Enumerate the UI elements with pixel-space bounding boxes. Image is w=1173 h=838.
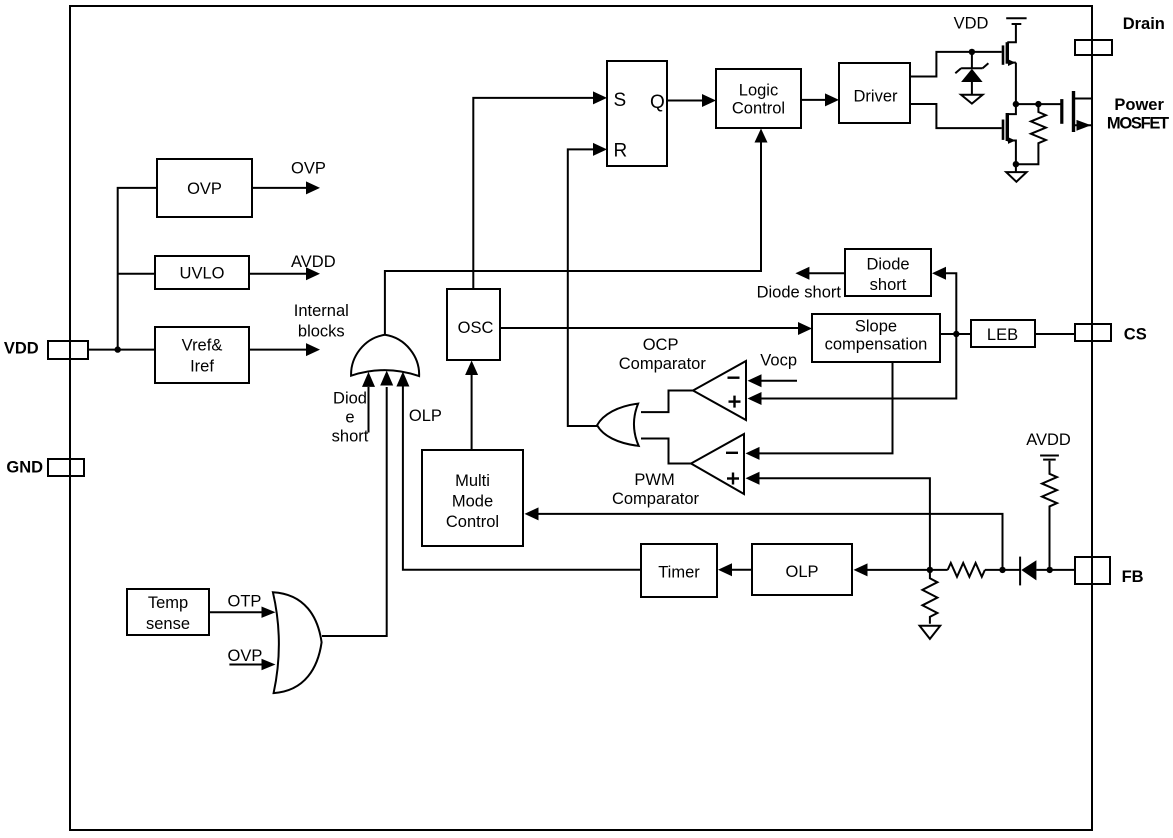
block Driver [839, 63, 910, 123]
wire Logic Control to Driver [801, 99, 825, 101]
pin GND [48, 459, 84, 476]
svg-text:Driver: Driver [854, 88, 899, 106]
flip-flop U1 SR latch [607, 61, 667, 166]
wire LEB to Slope compensation [940, 333, 971, 335]
block Vref&Iref [155, 327, 249, 383]
svg-text:OVP: OVP [228, 647, 263, 665]
wire VDD branch vertical [118, 188, 157, 350]
wire Vref output [249, 349, 308, 351]
node mid junction [1013, 101, 1019, 107]
node FB-MMC junction [999, 567, 1005, 573]
ground below M2 [1006, 172, 1026, 182]
wire CS net to OCP plus input [760, 334, 956, 399]
node AVDD junction [1047, 567, 1053, 573]
svg-text:Drain: Drain [1123, 15, 1165, 33]
svg-text:GND: GND [6, 459, 43, 477]
wire diode to FB pin [1036, 569, 1075, 571]
svg-text:short: short [870, 276, 907, 294]
pin VDD [48, 341, 88, 359]
wire OR2 output to OR3 middle input [322, 387, 387, 636]
svg-text:OVP: OVP [291, 160, 326, 178]
svg-text:VDD: VDD [954, 14, 989, 32]
svg-text:Internal: Internal [294, 302, 349, 320]
svg-text:Comparator: Comparator [619, 355, 707, 373]
resistor R4 vertical to ground [922, 570, 937, 624]
svg-text:Temp: Temp [148, 594, 188, 612]
block Temp sense [127, 589, 209, 635]
svg-text:Mode: Mode [452, 493, 493, 511]
svg-text:Comparator: Comparator [612, 490, 700, 508]
svg-text:OVP: OVP [187, 180, 222, 198]
block OSC [447, 289, 500, 360]
wire R3 to diode [985, 569, 1020, 571]
svg-text:OTP: OTP [228, 593, 262, 611]
wire Driver upper output to M1 gate [910, 52, 1002, 77]
svg-text:Diod: Diod [333, 390, 367, 408]
op-amp OCP comparator [693, 361, 746, 420]
svg-text:sense: sense [146, 615, 190, 633]
wire OSC top to S input [473, 98, 593, 289]
wire Vocp to OCP minus input [761, 380, 797, 382]
wire Driver lower output to M2 gate [910, 104, 1002, 128]
resistor R1 [1016, 104, 1046, 164]
diode D2 FB [1020, 557, 1036, 586]
wire OSC to Slope compensation [500, 327, 798, 329]
wire OR2m output to R input [568, 149, 597, 426]
node M1 gate junction [969, 49, 975, 55]
wire FB line to OLP [867, 569, 948, 571]
svg-text:PWM: PWM [634, 471, 674, 489]
block OVP [157, 159, 252, 217]
pin FB [1075, 557, 1110, 584]
OR gate OR2 bottom [273, 592, 322, 693]
wire Diode short stub OR3 left input [368, 387, 370, 433]
transistor Power MOSFET [1062, 91, 1092, 132]
wire gate net to power MOSFET [1016, 103, 1061, 105]
wire MMC top to OSC [471, 374, 473, 450]
svg-text:OLP: OLP [409, 407, 442, 425]
block UVLO [155, 256, 249, 289]
wire OVP to OR2 [229, 664, 262, 666]
pin CS [1075, 324, 1111, 341]
node bottom junction [1013, 161, 1019, 167]
block Logic Control [716, 69, 801, 128]
wire FB net to PWM plus input [759, 478, 930, 570]
svg-text:Diode short: Diode short [757, 284, 842, 302]
block Timer [641, 544, 717, 597]
wire M1 source down [1015, 63, 1017, 105]
block Diode short [845, 249, 931, 296]
svg-text:Multi: Multi [455, 472, 490, 490]
node VDD junction [115, 346, 121, 352]
svg-text:blocks: blocks [298, 322, 345, 340]
wire stub to ground [1015, 164, 1017, 172]
wire Slope bottom to PWM minus input [759, 362, 893, 453]
svg-text:OCP: OCP [643, 336, 679, 354]
svg-text:Vocp: Vocp [760, 351, 797, 369]
svg-text:compensation: compensation [825, 336, 928, 354]
svg-text:Iref: Iref [190, 358, 214, 376]
svg-text:S: S [614, 90, 627, 111]
svg-text:Logic: Logic [739, 82, 778, 100]
svg-text:UVLO: UVLO [180, 265, 225, 283]
svg-text:Vref&: Vref& [182, 337, 223, 355]
wire OLP to Timer [731, 569, 752, 571]
svg-text:OLP: OLP [785, 563, 818, 581]
svg-text:AVDD: AVDD [291, 253, 336, 271]
svg-text:OSC: OSC [458, 319, 494, 337]
node CS net junction [953, 331, 959, 337]
wire UVLO output [249, 273, 308, 275]
block Multi Mode Control [422, 450, 523, 546]
node R4 junction [927, 567, 933, 573]
svg-text:Timer: Timer [658, 564, 700, 582]
wire OCP output to OR2m [641, 391, 693, 413]
svg-text:VDD: VDD [4, 339, 39, 357]
VDD power rail top [1006, 18, 1026, 24]
ground below zener [961, 95, 983, 104]
svg-text:LEB: LEB [987, 326, 1018, 344]
wire PWM output to OR2m [641, 439, 691, 464]
AVDD power rail [1040, 456, 1059, 460]
svg-text:Control: Control [732, 100, 785, 118]
resistor R3 horizontal FB [948, 563, 985, 577]
svg-text:Control: Control [446, 513, 499, 531]
svg-text:short: short [332, 428, 369, 446]
svg-text:MOSFET: MOSFET [1107, 115, 1169, 133]
wire zener stub upper [971, 52, 973, 69]
wire Temp sense to OR2 [209, 611, 262, 613]
svg-text:e: e [345, 409, 354, 427]
block Slope compensation [812, 314, 940, 362]
wire OR3 output to Logic Control [385, 142, 761, 335]
svg-text:Diode: Diode [866, 256, 909, 274]
svg-text:FB: FB [1122, 568, 1144, 586]
op-amp PWM comparator [691, 434, 744, 494]
svg-text:R: R [614, 141, 628, 162]
pin Drain [1075, 40, 1112, 55]
svg-text:AVDD: AVDD [1026, 431, 1071, 449]
zener diode D1 [955, 63, 988, 95]
block LEB [971, 320, 1035, 347]
wire Timer to OR3 OLP input [403, 386, 641, 570]
wire OVP output [252, 187, 308, 189]
block OLP [752, 544, 852, 595]
svg-text:Power: Power [1114, 96, 1164, 114]
node resistor top junction [1035, 101, 1041, 107]
svg-text:CS: CS [1124, 326, 1147, 344]
wire CS pin to LEB [1035, 333, 1075, 335]
OR gate OR2m mirrored [597, 404, 639, 446]
svg-text:Slope: Slope [855, 318, 897, 336]
ground below R4 [920, 626, 941, 639]
wire FB net to Multi Mode Control [538, 514, 1003, 570]
wire VDD pin to Vref&Iref [88, 349, 155, 351]
svg-text:Q: Q [650, 92, 665, 113]
OR gate OR3 interrupt [351, 335, 419, 376]
transistor M2 lower NMOS [1003, 104, 1016, 164]
wire Diode short output [809, 272, 845, 274]
transistor M1 upper NMOS [1003, 25, 1016, 66]
wire to UVLO [118, 273, 155, 275]
wire Q to Logic Control [667, 100, 702, 102]
resistor R2 AVDD [1042, 461, 1057, 570]
wire CS net to Diode short input [945, 273, 956, 334]
